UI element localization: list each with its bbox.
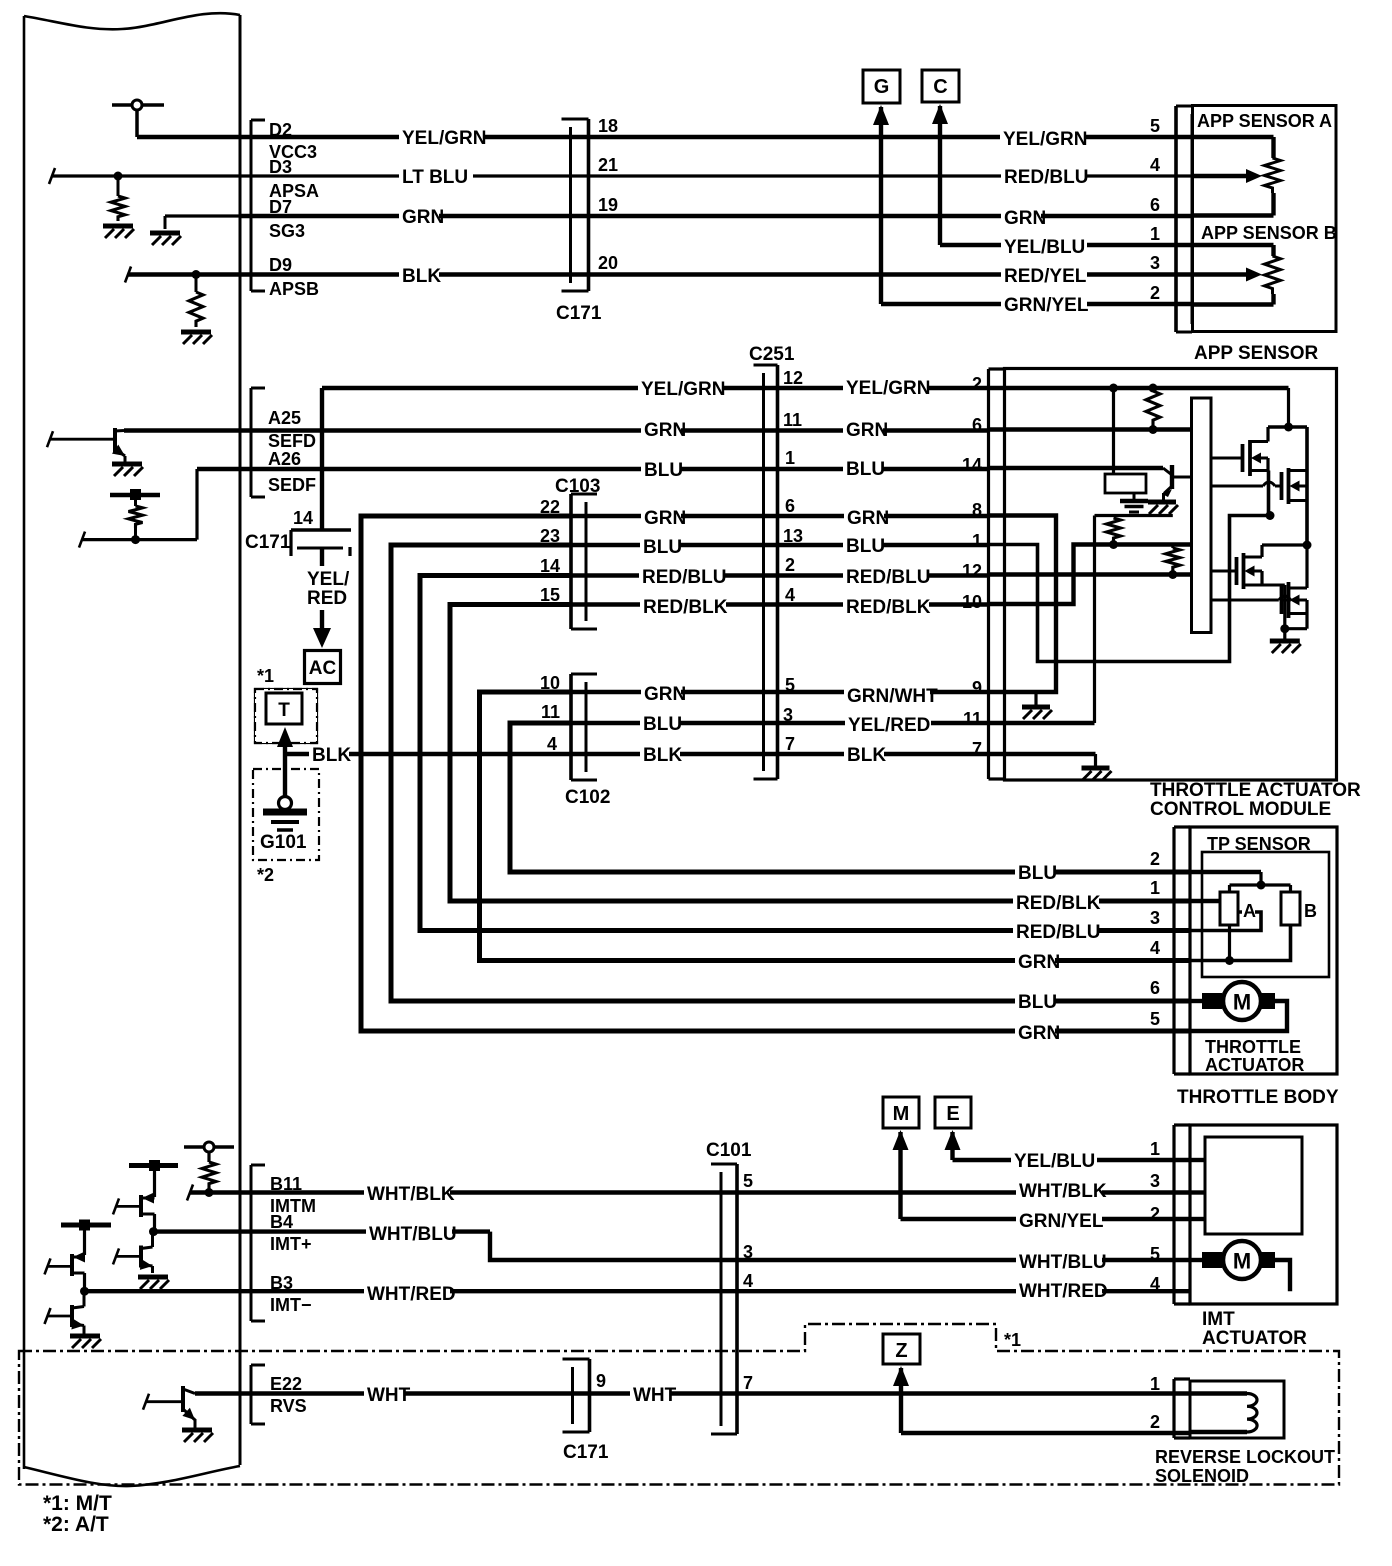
wire E22/RVS WHT [195,1391,1190,1395]
node: VCC3 supply junction with circle [112,103,164,107]
wire GRN pin8 down to GRN/WHT pin9 [988,516,1056,693]
solenoid coil [1190,1391,1247,1395]
svg-text:14: 14 [540,556,560,576]
svg-text:GRN: GRN [847,508,889,529]
supply circle node (IMT) [184,1145,234,1149]
resistor divider mid [1107,518,1121,542]
svg-text:14: 14 [293,508,313,528]
APP SENSOR box [1193,106,1337,332]
svg-text:7: 7 [972,739,982,759]
svg-text:C171: C171 [245,532,291,553]
wire segments C103..C251..module [571,514,988,518]
svg-text:ACTUATOR: ACTUATOR [1202,1328,1307,1349]
svg-text:GRN: GRN [1018,1023,1060,1044]
svg-text:G101: G101 [260,832,307,853]
wire YEL/RED pin11 [988,721,1095,725]
svg-text:C171: C171 [563,1442,609,1463]
svg-text:WHT/BLU: WHT/BLU [369,1224,457,1245]
svg-text:D2: D2 [269,120,292,140]
connector C101 [735,1164,739,1434]
svg-text:13: 13 [783,526,803,546]
svg-text:*1: *1 [1004,1330,1021,1350]
potentiometer APP sensor A [1193,135,1274,139]
transistor pair (IMT+) : PNP high side [129,1163,178,1168]
connector bracket E22/RVS [250,1365,253,1424]
wire RED/BLK: C103 pin15 to TP pin1 [450,605,1192,902]
svg-text:D7: D7 [269,197,292,217]
wire A25/SEFD GRN to C251 pin 11 [124,428,988,432]
svg-text:*1: M/T: *1: M/T [43,1492,112,1515]
svg-text:T: T [278,700,290,721]
svg-text:E: E [946,1103,959,1125]
wire BLU to transistor [988,466,1163,470]
IMT actuator bracket [1172,1125,1175,1304]
svg-text:AC: AC [309,658,337,679]
wire GRN/YEL from M [898,1132,902,1219]
wire RED/BLU pin12 to IC [988,572,1192,576]
svg-text:5: 5 [743,1171,753,1191]
driver block box [1112,391,1115,474]
throttle body bracket [1172,827,1175,1074]
svg-text:YEL/RED: YEL/RED [848,715,930,736]
svg-text:14: 14 [962,455,982,475]
svg-text:1: 1 [1150,878,1160,898]
svg-text:7: 7 [743,1373,753,1393]
potentiometer APP sensor B [1193,243,1274,247]
svg-text:9: 9 [596,1371,606,1391]
svg-text:6: 6 [972,415,982,435]
svg-text:11: 11 [783,410,802,430]
svg-text:2: 2 [1150,849,1160,869]
svg-text:BLU: BLU [643,714,682,735]
svg-text:12: 12 [783,368,803,388]
svg-text:1: 1 [785,448,795,468]
svg-text:22: 22 [540,497,560,517]
svg-text:5: 5 [1150,1009,1160,1029]
svg-text:SOLENOID: SOLENOID [1155,1466,1249,1486]
svg-text:BLU: BLU [1018,863,1057,884]
wire D9/APSB BLK with resistor to ground [125,267,131,283]
svg-text:BLU: BLU [846,459,885,480]
MOSFET Q1 [1211,457,1243,460]
svg-text:C103: C103 [555,476,600,497]
REVERSE LOCKOUT SOLENOID box [1190,1381,1284,1438]
svg-text:21: 21 [598,155,618,175]
svg-text:GRN: GRN [1018,952,1060,973]
svg-text:4: 4 [1150,938,1160,958]
wire D2/VCC3 YEL/GRN to C171 pin 18 and APP sensor pin 5 [137,135,1193,139]
ECM/PCM torn-edge enclosure [24,13,240,29]
wire YEL/BLU from C [938,106,942,245]
svg-text:THROTTLE BODY: THROTTLE BODY [1177,1087,1339,1108]
MOSFET Q2 [1211,485,1282,488]
svg-text:1: 1 [1150,1139,1160,1159]
ground stub on GRN/WHT [1034,692,1037,705]
wires into TP sensor [1190,870,1261,874]
svg-text:3: 3 [1150,908,1160,928]
svg-text:20: 20 [598,253,618,273]
connector C171 (bottom) [588,1359,592,1432]
svg-text:6: 6 [785,496,795,516]
connector C103 [569,494,573,629]
svg-text:RED/BLK: RED/BLK [643,597,728,618]
TP SENSOR inner box [1202,852,1329,977]
wire A26/SEDF BLU to C251 pin 1 [79,532,85,548]
H-bridge top rail [1268,425,1307,429]
svg-text:10: 10 [540,673,560,693]
resistor to RED/BLU [1166,548,1180,571]
svg-text:A: A [1243,901,1256,921]
MOSFET Q3 [1211,570,1237,573]
transistor (module driver) [1163,468,1172,475]
svg-text:1: 1 [1150,1374,1160,1394]
svg-text:APP SENSOR: APP SENSOR [1194,343,1319,364]
svg-text:YEL/GRN: YEL/GRN [1003,129,1087,150]
svg-text:BLU: BLU [1018,992,1057,1013]
svg-text:APP SENSOR A: APP SENSOR A [1197,111,1332,131]
wire B11/IMTM WHT/BLK [187,1185,193,1201]
svg-text:GRN: GRN [644,684,686,705]
svg-text:12: 12 [962,561,982,581]
wire D7/SG3 GRN [164,216,167,229]
svg-text:BLU: BLU [643,537,682,558]
svg-text:C: C [933,76,947,98]
svg-text:GRN: GRN [1004,208,1046,229]
svg-text:3: 3 [783,705,793,725]
svg-text:BLU: BLU [846,536,885,557]
svg-text:THROTTLE: THROTTLE [1205,1037,1301,1057]
svg-text:BLU: BLU [644,460,683,481]
svg-text:D3: D3 [269,157,292,177]
svg-text:RED: RED [307,588,347,609]
svg-text:WHT/RED: WHT/RED [1019,1281,1108,1302]
svg-text:11: 11 [963,709,982,729]
dash-dot M/T option box [19,1324,1339,1485]
svg-text:GRN/WHT: GRN/WHT [847,686,938,707]
svg-text:WHT/RED: WHT/RED [367,1284,456,1305]
svg-text:8: 8 [972,500,982,520]
svg-text:ACTUATOR: ACTUATOR [1205,1055,1304,1075]
svg-text:3: 3 [743,1242,753,1262]
svg-text:3: 3 [1150,253,1160,273]
connector C251 [776,365,780,779]
resistor (pullup) [1146,391,1160,426]
svg-text:C102: C102 [565,787,610,808]
svg-text:Z: Z [895,1340,907,1362]
wire BLK to C102 pin 4 and C251 pin 7 [285,752,988,756]
svg-text:RED/BLK: RED/BLK [846,597,931,618]
box T (M/T transmission ref), dash-dot outline [255,689,317,743]
svg-text:2: 2 [785,555,795,575]
wire BLU: C103 pin23 to TP pin6 BLU [391,545,1192,1001]
svg-text:YEL/GRN: YEL/GRN [402,128,486,149]
wire BLU: C102 pin11 to TP pin2 [510,723,1192,872]
connector bracket: ECM pins D2..APSB [250,120,253,291]
solenoid bracket [1172,1379,1175,1438]
svg-text:GRN/YEL: GRN/YEL [1004,295,1089,316]
stubs into IMT box [1190,1158,1205,1162]
svg-text:YEL/GRN: YEL/GRN [641,379,725,400]
svg-text:APSB: APSB [269,279,319,299]
svg-text:B3: B3 [270,1273,293,1293]
motor: throttle actuator [1190,999,1202,1003]
svg-text:YEL/BLU: YEL/BLU [1004,237,1085,258]
svg-text:BLK: BLK [312,745,351,766]
svg-text:WHT: WHT [633,1385,677,1406]
svg-text:15: 15 [540,585,560,605]
svg-text:WHT/BLK: WHT/BLK [367,1184,455,1205]
wire GRN to IC [988,427,1192,431]
rail tick + resistor (SEDF pullup) [110,493,160,497]
signal ground under driver block [1133,493,1136,499]
box G (ground reference) [863,70,900,103]
svg-text:B4: B4 [270,1212,293,1232]
svg-text:A26: A26 [268,449,301,469]
svg-text:IMT: IMT [1202,1309,1235,1330]
svg-text:4: 4 [1150,1274,1160,1294]
resistor IMTM pullup [202,1162,216,1188]
svg-text:BLK: BLK [643,745,682,766]
connector bracket: ECM pins A25..SEDF [250,388,253,497]
svg-text:A25: A25 [268,408,301,428]
module connector bracket [987,369,990,779]
svg-text:2: 2 [1150,1204,1160,1224]
svg-text:4: 4 [1150,155,1160,175]
svg-text:C101: C101 [706,1140,752,1161]
wire YEL/BLU from E [950,1132,954,1160]
IMT ACTUATOR box [1190,1125,1337,1304]
box AC (A/C system ref) [305,651,341,684]
svg-text:SEFD: SEFD [268,431,316,451]
svg-text:IMT−: IMT− [270,1295,312,1315]
svg-text:4: 4 [743,1271,753,1291]
svg-text:YEL/: YEL/ [307,569,350,590]
box C (connector ref) [922,70,959,102]
svg-text:2: 2 [1150,1412,1160,1432]
wire BLK/YEL from Z [899,1368,903,1433]
svg-text:GRN: GRN [846,420,888,441]
svg-text:9: 9 [972,678,982,698]
svg-text:GRN: GRN [644,420,686,441]
svg-text:11: 11 [541,702,560,722]
svg-text:M: M [1233,1249,1251,1274]
ground: H-bridge source [1283,629,1286,639]
wire B3/IMT- WHT/RED [85,1289,1291,1293]
svg-text:5: 5 [785,675,795,695]
svg-text:G: G [874,76,890,98]
wire YEL/GRN (IG feed) to C251 pin 12 [322,386,988,390]
THROTTLE BODY box [1190,827,1337,1074]
svg-text:3: 3 [1150,1171,1160,1191]
wire B4/IMT+ WHT/BLU [154,1229,491,1233]
wire BLK pin7 with ground [988,752,1096,756]
svg-text:RVS: RVS [270,1396,307,1416]
svg-text:*2: *2 [257,865,274,885]
IC bar [1192,398,1212,633]
svg-text:YEL/GRN: YEL/GRN [846,378,930,399]
transistor (IMT- low side NPN) [70,1305,74,1327]
wire BLU pin1 to H-bridge output [988,516,1270,662]
transistor (RVS driver) [181,1386,185,1412]
transistor (SEFD driver) in ECM [113,428,117,452]
svg-text:5: 5 [1150,1244,1160,1264]
connector bracket APP sensor [1174,106,1178,332]
svg-text:4: 4 [547,734,557,754]
svg-text:RED/BLU: RED/BLU [642,567,726,588]
svg-text:D9: D9 [269,255,292,275]
svg-text:WHT/BLU: WHT/BLU [1019,1252,1107,1273]
svg-text:10: 10 [962,592,982,612]
connector bracket B11..IMT- [250,1165,253,1321]
svg-text:YEL/BLU: YEL/BLU [1014,1151,1095,1172]
svg-text:1: 1 [1150,224,1160,244]
svg-text:M: M [893,1103,910,1125]
wire RED/BLK pin10 riser to IC [988,545,1192,605]
wire GRN: C103 pin22 to TP pin5 GRN [361,516,1192,1031]
svg-text:6: 6 [1150,195,1160,215]
svg-text:RED/BLU: RED/BLU [846,567,930,588]
ground (SG3 branch) [165,214,240,217]
svg-text:THROTTLE ACTUATOR: THROTTLE ACTUATOR [1150,780,1361,801]
arrow to AC [320,610,324,634]
wire GRN/YEL from G [879,107,883,304]
transistor (IMT+ low side NPN) [139,1246,143,1268]
wire GRN: C102 pin10 to TP pin4 [480,692,1193,961]
svg-text:C251: C251 [749,344,795,365]
pot element B [1281,892,1300,925]
box E [935,1097,971,1128]
svg-text:RED/BLK: RED/BLK [1016,893,1101,914]
svg-text:IMT+: IMT+ [270,1234,312,1254]
svg-text:4: 4 [785,585,795,605]
svg-text:23: 23 [540,526,560,546]
wire D3/APSA with resistor to ground [49,168,55,184]
svg-text:M: M [1233,990,1251,1015]
svg-text:WHT: WHT [367,1385,411,1406]
ground G101 with circle terminal [279,797,292,810]
dash-dot box around G101 [253,769,319,860]
box Z [883,1334,920,1364]
svg-text:LT BLU: LT BLU [402,167,468,188]
svg-text:BLK: BLK [847,745,886,766]
MOSFET Q4 [1211,599,1291,602]
svg-text:B11: B11 [270,1174,302,1194]
svg-text:E22: E22 [270,1374,302,1394]
svg-text:CONTROL MODULE: CONTROL MODULE [1150,799,1331,820]
svg-text:SEDF: SEDF [268,475,316,495]
svg-text:RED/BLU: RED/BLU [1016,922,1100,943]
svg-text:C171: C171 [556,303,602,324]
transistor pair (IMT-) : PNP high side [61,1223,111,1228]
svg-text:GRN: GRN [402,207,444,228]
svg-text:GRN: GRN [644,508,686,529]
arrow up into T [283,745,287,797]
connector C102 [569,674,573,780]
svg-text:19: 19 [598,195,618,215]
svg-text:RED/YEL: RED/YEL [1004,266,1087,287]
svg-text:18: 18 [598,116,618,136]
svg-text:B: B [1304,901,1317,921]
svg-text:6: 6 [1150,978,1160,998]
svg-text:SG3: SG3 [269,221,305,241]
motor: IMT actuator [1190,1258,1202,1262]
svg-text:RED/BLU: RED/BLU [1004,167,1088,188]
svg-text:WHT/BLK: WHT/BLK [1019,1181,1107,1202]
pot element A [1220,892,1238,925]
svg-text:7: 7 [785,734,795,754]
svg-text:*2: A/T: *2: A/T [43,1513,109,1536]
svg-text:APP SENSOR B: APP SENSOR B [1201,223,1337,243]
svg-text:GRN/YEL: GRN/YEL [1019,1211,1104,1232]
svg-text:REVERSE LOCKOUT: REVERSE LOCKOUT [1155,1447,1335,1467]
svg-text:5: 5 [1150,116,1160,136]
wire: YEL/GRN feed inside module [988,386,1289,390]
svg-text:1: 1 [972,531,982,551]
wire RED/BLU: C103 pin14 to TP pin3 [420,576,1192,931]
svg-text:2: 2 [1150,283,1160,303]
box M [883,1097,919,1128]
svg-text:*1: *1 [257,666,274,686]
svg-text:2: 2 [972,374,982,394]
connector C171 (top) [587,119,591,291]
svg-text:BLK: BLK [402,266,441,287]
throttle actuator control module box [1005,369,1337,781]
